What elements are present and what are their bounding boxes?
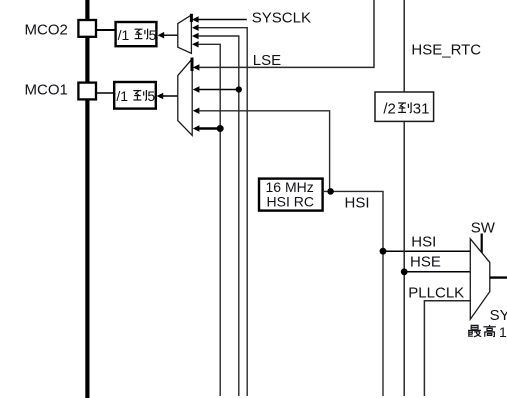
svg-text:HSI: HSI	[345, 195, 370, 212]
wire: HSI branch to mux SW	[383, 250, 470, 252]
value label /1 到 5 (MCO1)	[116, 88, 155, 104]
wire: PLLCLK input to mux MCO2, corner down long vertical	[192, 41, 199, 47]
wire: MCO1 pad to divider	[96, 92, 114, 94]
mux MCO1 (trapezoid)	[178, 59, 192, 136]
svg-text:/1: /1	[118, 27, 130, 43]
svg-text:HSE_RTC: HSE_RTC	[411, 42, 481, 59]
MCO1 pin pad	[78, 83, 96, 100]
oscillator box 16 MHz HSI RC	[259, 179, 323, 211]
mux MCO2 select stub	[190, 14, 193, 22]
svg-text:SYSCLK: SYSCLK	[252, 9, 311, 26]
wire: mux MCO2 output with arrowhead into divider	[163, 34, 178, 36]
wire: SYSCLK input to mux MCO2 (arrowhead)	[192, 16, 199, 22]
node: junction PLLCLK / MCO1	[217, 125, 224, 132]
node: junction HSE / MCO1	[236, 86, 242, 92]
svg-text:SYSCLK: SYSCLK	[490, 307, 507, 324]
wire: LSE input to mux MCO1, long wire to top-right vertical	[193, 64, 200, 70]
mux MCO1 select stub	[191, 58, 194, 71]
svg-text:HSI RC: HSI RC	[267, 194, 314, 210]
value label /2到31	[383, 100, 429, 117]
svg-text:MCO2: MCO2	[25, 22, 68, 39]
svg-text:5: 5	[149, 27, 157, 43]
svg-text:168 MHz: 168 MHz	[499, 324, 507, 340]
wire: HSE vertical line (top to bottom)	[403, 0, 405, 396]
svg-text:HSE: HSE	[410, 254, 441, 271]
wire: SYSCLK output of mux SW	[490, 276, 507, 278]
svg-text:5: 5	[147, 88, 155, 104]
svg-text:/1: /1	[116, 88, 128, 104]
svg-text:/2: /2	[383, 100, 396, 117]
wire: MCO2 pad to divider	[96, 29, 115, 31]
MCO2 pin pad	[78, 20, 96, 37]
mux MCO2 (trapezoid)	[178, 15, 192, 53]
svg-text:SW: SW	[471, 220, 496, 237]
wire: MCO pin bus (thick vertical line)	[85, 0, 89, 398]
svg-text:16 MHz: 16 MHz	[266, 179, 314, 195]
svg-text:PLLCLK: PLLCLK	[408, 284, 464, 301]
wire: HSI RC output to corner	[323, 191, 383, 396]
svg-text:MCO1: MCO1	[25, 82, 68, 99]
wire: HSE branch to mux SW	[404, 271, 470, 273]
wire: mux MCO1 output with arrowhead into divider	[162, 95, 178, 97]
wire: PLLI2S input to mux MCO2, corner down long vertical	[192, 25, 199, 31]
wire: HSI input to mux MCO1, corner down to HSI node	[193, 108, 200, 114]
divider box /2 to 31	[375, 92, 434, 121]
wire: HSE input to mux MCO2, corner down long vertical	[192, 33, 199, 39]
svg-text:31: 31	[413, 100, 430, 117]
divider box /1 to 5 (MCO2)	[116, 22, 157, 46]
label max 168 MHz (clipped)	[468, 324, 507, 340]
wire: HSE input to mux MCO1 (to junction)	[193, 86, 200, 92]
wire: PLLCLK branch to mux SW, corner down	[424, 301, 470, 396]
svg-text:LSE: LSE	[253, 52, 281, 69]
mux SW select stub	[481, 234, 483, 254]
node: junction HSE to SW	[401, 268, 408, 275]
wire: PLLCLK input to mux MCO1 (thick, to junction)	[193, 125, 200, 131]
divider box /1 to 5 (MCO1)	[114, 82, 156, 109]
svg-text:HSI: HSI	[411, 234, 436, 251]
node: junction HSI output	[327, 188, 334, 195]
value label /1 到 5 (MCO2)	[118, 27, 157, 43]
mux SW (trapezoid)	[470, 239, 490, 319]
node: junction HSI to SW	[380, 248, 387, 255]
